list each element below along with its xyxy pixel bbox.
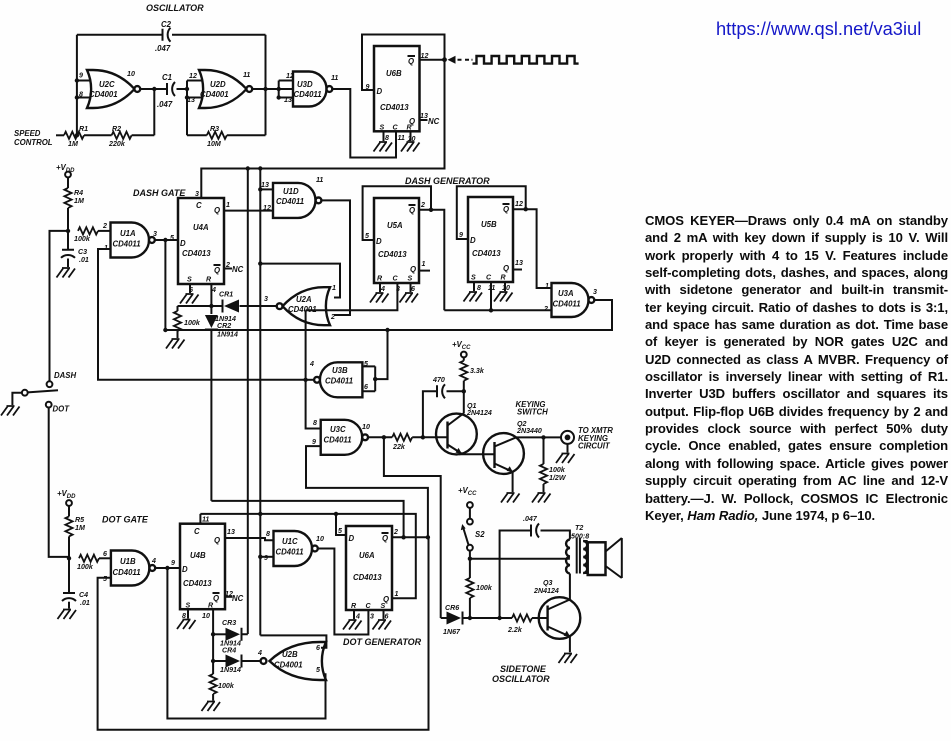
svg-text:U1C: U1C: [282, 537, 298, 546]
svg-text:U5B: U5B: [481, 220, 497, 229]
ground under 100k pulldown: [166, 339, 185, 349]
svg-text:C2: C2: [161, 20, 172, 29]
wire U5A Qbar row down to clock row: [419, 210, 444, 310]
wire U4A R down to CR1 row: [210, 284, 212, 306]
flip-flop U5B CD4013: [468, 197, 513, 282]
ground under U6B S: [374, 142, 393, 152]
switch common arm: [22, 390, 28, 396]
svg-text:3.3k: 3.3k: [470, 367, 485, 375]
svg-text:R2: R2: [112, 125, 121, 133]
svg-text:470: 470: [432, 376, 445, 384]
svg-text:12: 12: [515, 200, 523, 208]
wire U6B S and R stubs: [384, 131, 411, 141]
svg-text:CD4001: CD4001: [200, 90, 229, 99]
NAND gate U3C CD4011: [321, 420, 363, 455]
wire U2C input stubs: [77, 81, 93, 98]
wire U6A Qbar row: [392, 536, 428, 538]
svg-text:CD4011: CD4011: [276, 548, 304, 557]
diode CR4 1N914: [213, 660, 225, 662]
svg-text:OSCILLATOR: OSCILLATOR: [492, 674, 550, 684]
svg-text:13: 13: [227, 528, 235, 536]
svg-text:CD4011: CD4011: [325, 377, 353, 386]
capacitor .047 (sidetone): [531, 524, 539, 538]
svg-text:R1: R1: [79, 125, 88, 133]
node U3C output junction: [382, 435, 386, 439]
svg-text:U1D: U1D: [283, 187, 299, 196]
ground under U6A R: [343, 620, 362, 630]
svg-text:Q: Q: [408, 57, 414, 66]
svg-text:CD4011: CD4011: [324, 436, 352, 445]
wire U1B pin5 big loop (bottom wire 2): [98, 537, 429, 729]
svg-text:6: 6: [364, 383, 368, 391]
wire U4A Q to U1D pin12: [224, 210, 273, 212]
node U2C output junction: [152, 87, 156, 91]
wire U5B Q stub: [513, 269, 522, 271]
node bus B at line A: [258, 166, 262, 170]
svg-text:3: 3: [153, 230, 157, 238]
svg-text:NC: NC: [232, 265, 244, 274]
svg-text:C: C: [486, 274, 492, 282]
wire left vertical of oscillator: [76, 35, 78, 136]
wire U2A output to CR1: [240, 305, 277, 307]
svg-text:C1: C1: [162, 73, 172, 82]
wire U2C output row: [140, 88, 187, 90]
wire U2D output row: [252, 88, 293, 90]
svg-text:9: 9: [366, 83, 370, 91]
node CR3 junction: [211, 632, 215, 636]
svg-text:DOT GATE: DOT GATE: [102, 515, 149, 525]
wire CR2 column down to W3 bus: [210, 340, 212, 501]
node R3 riser junction: [263, 87, 267, 91]
node 470/3.3k junction: [462, 389, 466, 393]
svg-text:8: 8: [79, 91, 83, 99]
wire U3C output row: [368, 436, 392, 438]
wire U2A pin1 bracket from bus B: [260, 264, 340, 298]
resistor 3.3k: [463, 357, 465, 360]
svg-text:Q3: Q3: [543, 579, 553, 587]
svg-text:R4: R4: [74, 189, 83, 197]
svg-text:12: 12: [189, 72, 197, 80]
svg-text:C: C: [393, 124, 399, 132]
svg-text:100k: 100k: [184, 319, 201, 327]
svg-text:S: S: [186, 602, 191, 610]
svg-text:13: 13: [187, 96, 195, 104]
wire U1A pin1 to DASH line: [98, 249, 306, 380]
svg-text:U5A: U5A: [387, 221, 403, 230]
svg-text:R: R: [407, 124, 413, 132]
svg-text:13: 13: [515, 259, 523, 267]
svg-text:C: C: [196, 201, 202, 210]
ground under U6A S: [373, 620, 392, 630]
svg-text:Q: Q: [382, 534, 388, 543]
op-amp? no: NOR gate U2C CD4001: [87, 70, 135, 108]
svg-text:S: S: [380, 124, 385, 132]
ground under Q3 emitter: [559, 654, 578, 664]
node U2D input 12: [185, 87, 189, 91]
wire U1D pin13 from clock bus B: [260, 188, 273, 190]
svg-text:500:8: 500:8: [571, 533, 589, 541]
svg-text:R: R: [351, 602, 357, 610]
svg-text:CD4001: CD4001: [274, 661, 303, 670]
wire U3B column (dash-gen clock to U3C pin8): [306, 310, 321, 428]
svg-text:Q: Q: [214, 266, 220, 275]
URL text: [716, 18, 951, 40]
wire U1A output down to U3A line: [164, 240, 166, 330]
svg-text:C: C: [366, 602, 372, 610]
svg-text:DASH GATE: DASH GATE: [133, 188, 186, 198]
svg-text:22k: 22k: [392, 443, 406, 451]
node pin13 junction on bus B: [258, 187, 262, 191]
node y330/U1A-out junction: [163, 328, 167, 332]
wire U2B pin6 bracket to bus B: [260, 557, 326, 648]
node U3D input tie top: [277, 87, 281, 91]
svg-text:2: 2: [330, 313, 335, 321]
svg-text:3: 3: [593, 288, 597, 296]
svg-text:12: 12: [263, 204, 271, 212]
svg-text:1: 1: [422, 260, 426, 268]
description paragraph: [645, 212, 948, 524]
svg-text:CD4013: CD4013: [378, 250, 407, 259]
node U5B Qbar junction: [524, 207, 528, 211]
svg-text:U2A: U2A: [296, 295, 312, 304]
svg-text:CONTROL: CONTROL: [14, 138, 53, 147]
svg-text:CD4011: CD4011: [276, 197, 304, 206]
wire U3A output loop to left (y330 line): [165, 300, 612, 330]
flip-flop U6B CD4013: [374, 46, 420, 131]
svg-text:1N914: 1N914: [217, 331, 238, 339]
wire U5A C clock from U3B: [306, 283, 398, 310]
ground under Q2 emitter: [501, 493, 520, 503]
svg-text:Q: Q: [410, 265, 416, 274]
svg-text:6: 6: [103, 550, 107, 558]
node feedback junction: [497, 616, 501, 620]
svg-text:C: C: [393, 275, 399, 283]
NAND gate U3A CD4011: [552, 283, 589, 317]
svg-text:2: 2: [393, 528, 398, 536]
svg-text:U3B: U3B: [332, 366, 348, 375]
svg-text:2N4124: 2N4124: [533, 587, 559, 595]
ground under C4: [58, 610, 77, 620]
svg-text:Q: Q: [503, 264, 509, 273]
svg-text:1: 1: [395, 590, 399, 598]
NOR gate U2A CD4001 (mirrored): [283, 287, 331, 325]
wire CR6 node to 2.2k: [470, 617, 512, 619]
svg-text:2: 2: [102, 222, 107, 230]
wire Q2 collector row to terminal: [516, 436, 561, 438]
svg-text:1N67: 1N67: [443, 628, 461, 636]
node U3B output on DASH line: [303, 378, 307, 382]
svg-text:10: 10: [127, 70, 135, 78]
node U1A output junction: [163, 238, 167, 242]
svg-text:10: 10: [362, 423, 370, 431]
wire U2D input tie: [187, 81, 203, 136]
svg-text:.01: .01: [80, 599, 90, 607]
svg-text:R: R: [501, 274, 507, 282]
wire U3B output: [306, 379, 315, 381]
node CR4 junction: [211, 659, 215, 663]
svg-text:8: 8: [313, 419, 317, 427]
svg-text:13: 13: [284, 96, 292, 104]
svg-text:R3: R3: [210, 125, 219, 133]
NAND gate U3B CD4011 (mirrored): [320, 362, 362, 397]
svg-text:220k: 220k: [108, 140, 126, 148]
svg-text:CR6: CR6: [445, 604, 459, 612]
svg-text:T2: T2: [575, 524, 583, 532]
svg-text:DASH: DASH: [54, 371, 76, 380]
wire U4B C pin to dot-gate clock bus + U6A Q feedback: [200, 514, 415, 598]
node bus B on dot-gate bus: [258, 512, 262, 516]
svg-text:CD4011: CD4011: [113, 240, 141, 249]
wire U1A output to U4A D: [155, 239, 178, 241]
svg-text:1: 1: [332, 284, 336, 292]
flip-flop U4A CD4013: [178, 198, 224, 284]
ground under 100k 1/2W: [532, 493, 551, 503]
resistor 100k (U1B input): [79, 555, 99, 562]
svg-text:CD4001: CD4001: [89, 90, 118, 99]
node U5B C junction: [489, 308, 493, 312]
node W3 on Qbar row: [401, 535, 405, 539]
svg-text:1M: 1M: [74, 197, 85, 205]
svg-text:CR2: CR2: [217, 322, 231, 330]
svg-text:CR4: CR4: [222, 647, 236, 655]
svg-text:.01: .01: [79, 256, 89, 264]
svg-text:U4B: U4B: [190, 551, 206, 560]
svg-text:D: D: [377, 87, 383, 96]
svg-text:1M: 1M: [68, 140, 79, 148]
resistor R2 220k: [112, 132, 132, 139]
wire U4A S stub: [189, 284, 191, 293]
node U1B output junction: [165, 566, 169, 570]
svg-text:U3A: U3A: [558, 289, 574, 298]
flip-flop U6A CD4013: [346, 526, 392, 610]
node R4/C3/100k junction: [66, 229, 70, 233]
node W2 on Qbar row: [426, 535, 430, 539]
switch S2: [469, 508, 471, 519]
svg-text:2.2k: 2.2k: [507, 626, 523, 634]
wire U5A R stub + S stub: [380, 283, 411, 292]
capacitor C3 .01: [67, 231, 69, 250]
wire U3C pin9 staircase to U6A Qbar (W2): [306, 446, 428, 537]
svg-text:R: R: [206, 276, 212, 284]
wire U3D output to U6B clock: [332, 89, 396, 158]
svg-text:CD4013: CD4013: [353, 573, 382, 582]
capacitor C2: [163, 28, 171, 42]
wire U6A R stub + S stub: [354, 610, 384, 619]
svg-text:R5: R5: [75, 516, 85, 524]
node Q1 base junction: [421, 435, 425, 439]
wire clock bus B vertical: [259, 169, 261, 557]
svg-text:1M: 1M: [75, 524, 86, 532]
svg-text:6: 6: [411, 285, 415, 293]
flip-flop U5A CD4013: [374, 198, 419, 283]
node U6A D on bus: [334, 512, 338, 516]
node U1C pin9 junction: [258, 555, 262, 559]
NOR gate U2D CD4001: [199, 70, 247, 108]
node U2C input 9: [75, 78, 79, 82]
wire U1B out down + bottom wire 1 + U2B pin5 bracket: [167, 568, 325, 719]
wire U5B C down to clock row: [490, 282, 492, 310]
wire U4A Qbar NC stub: [224, 268, 232, 270]
svg-text:9: 9: [79, 72, 83, 80]
NAND gate U1A CD4011: [111, 223, 150, 258]
ground at switch common: [1, 406, 20, 416]
svg-text:9: 9: [312, 438, 316, 446]
svg-text:11: 11: [202, 516, 209, 524]
svg-text:3: 3: [195, 190, 199, 198]
svg-text:9: 9: [264, 554, 268, 562]
svg-text:+VDD: +VDD: [57, 489, 76, 500]
svg-text:U3C: U3C: [330, 425, 346, 434]
node R5/C4/100k junction: [67, 556, 71, 560]
clock waveform arrow: [448, 56, 456, 64]
svg-text:D: D: [349, 534, 355, 543]
svg-text:CD4013: CD4013: [380, 103, 409, 112]
svg-text:CIRCUIT: CIRCUIT: [578, 442, 611, 451]
svg-text:3: 3: [264, 295, 268, 303]
wire supply row to T2: [470, 558, 570, 560]
wire secondary bus vertical (CR3 feed): [247, 169, 249, 635]
wire DOT contact down to U1B node: [49, 408, 68, 557]
node CR1/U4A R junction: [209, 304, 213, 308]
svg-text:8: 8: [477, 284, 481, 292]
diode CR3 1N914: [213, 633, 225, 635]
svg-text:.047: .047: [523, 515, 538, 523]
svg-text:13: 13: [420, 112, 428, 120]
svg-text:1: 1: [545, 282, 549, 290]
svg-text:11: 11: [398, 134, 405, 142]
wire S2 to sidetone node: [469, 551, 471, 559]
terminal TO XMTR: [561, 431, 574, 444]
wire U6B Q out row: [420, 60, 445, 120]
svg-text:6: 6: [316, 644, 320, 652]
svg-text:C: C: [194, 527, 200, 536]
diode CR1 1N914: [224, 300, 239, 313]
svg-text:13: 13: [261, 181, 269, 189]
svg-text:D: D: [182, 565, 188, 574]
wire feedback riser to .047 cap: [500, 531, 531, 619]
ground under U5B S: [464, 292, 483, 302]
svg-text:U2D: U2D: [210, 80, 226, 89]
svg-text:NC: NC: [428, 117, 440, 126]
svg-text:10M: 10M: [207, 140, 222, 148]
node U2D input 13: [185, 95, 189, 99]
svg-text:100k: 100k: [74, 235, 91, 243]
wire U5B D feedback bracket: [457, 186, 526, 239]
svg-text:CD4011: CD4011: [113, 568, 141, 577]
svg-text:S: S: [408, 275, 413, 283]
wire U4B R down to CR3/CR4: [212, 609, 214, 661]
svg-text:100k: 100k: [218, 682, 235, 690]
wire U1D output to U2A pin2: [321, 200, 350, 315]
ground under U5B R: [494, 292, 513, 302]
flip-flop U4B CD4013: [180, 524, 225, 610]
resistor R5 1M: [68, 506, 70, 517]
svg-text:U1A: U1A: [120, 229, 136, 238]
node CR6/100k junction: [468, 616, 472, 620]
svg-text:11: 11: [316, 176, 323, 184]
svg-text:2N3440: 2N3440: [516, 427, 542, 435]
wire U5B Qbar row to U3A pin1: [513, 209, 552, 288]
ground under U5A S: [400, 293, 419, 303]
resistor R3 10M: [187, 134, 207, 136]
wire U1C pin9 from bus B: [260, 556, 273, 558]
svg-text:Q: Q: [213, 594, 219, 603]
wire Q1 emitter to Q2 base: [459, 453, 495, 455]
svg-text:DOT: DOT: [53, 405, 71, 414]
svg-text:5: 5: [338, 527, 343, 535]
svg-text:8: 8: [266, 530, 270, 538]
svg-text:11: 11: [331, 74, 338, 82]
svg-text:9: 9: [171, 559, 175, 567]
svg-text:CD4011: CD4011: [553, 300, 581, 309]
diode CR6 1N67: [441, 617, 447, 619]
svg-text:11: 11: [243, 71, 250, 79]
wire U5A D feedback bracket: [363, 186, 431, 240]
svg-text:100k: 100k: [476, 584, 493, 592]
svg-text:U6B: U6B: [386, 69, 402, 78]
svg-text:+VCC: +VCC: [452, 340, 471, 351]
svg-text:10: 10: [316, 535, 324, 543]
ground under U4B S: [177, 620, 196, 630]
NAND gate U3D CD4011: [293, 72, 327, 107]
wire riser from R2 to output: [153, 89, 155, 135]
svg-text:D: D: [180, 239, 186, 248]
svg-text:U1B: U1B: [120, 557, 136, 566]
wire C2 feedback top loop: [77, 34, 266, 36]
svg-text:S: S: [187, 276, 192, 284]
ground under U5A R: [370, 293, 389, 303]
svg-text:4: 4: [257, 649, 262, 657]
node U6B Q-bar junction: [442, 57, 447, 62]
svg-text:CR3: CR3: [222, 619, 236, 627]
wire U1C output to U6A clock C: [318, 549, 369, 635]
svg-text:R: R: [208, 602, 214, 610]
svg-text:1N914: 1N914: [220, 666, 241, 674]
wire U5B S stub + R stub: [474, 282, 505, 291]
ground under U6B R: [401, 142, 420, 152]
svg-text:U2B: U2B: [282, 650, 298, 659]
capacitor 470 feedback: [423, 391, 437, 437]
resistor 22k: [392, 434, 412, 441]
svg-text:5: 5: [103, 575, 108, 583]
ground under U4A S: [180, 294, 199, 304]
svg-text:CD4013: CD4013: [182, 249, 211, 258]
ground under dot-gate 100k: [202, 702, 221, 712]
resistor 100k pulldown (dash gate): [177, 306, 179, 311]
node U5A Qbar junction: [429, 208, 433, 212]
svg-text:4: 4: [309, 360, 314, 368]
wire U5A Q stub: [419, 270, 430, 272]
node U2C input 8: [75, 95, 79, 99]
svg-text:CD4013: CD4013: [183, 579, 212, 588]
svg-text:OSCILLATOR: OSCILLATOR: [146, 3, 204, 13]
svg-text:D: D: [470, 236, 476, 245]
resistor 100k (dot gate pulldown): [212, 661, 214, 674]
capacitor C4 .01: [68, 558, 70, 593]
svg-text:CR1: CR1: [219, 291, 233, 299]
svg-text:S: S: [381, 602, 386, 610]
svg-text:U4A: U4A: [193, 223, 209, 232]
wire U4B S stub: [187, 609, 189, 618]
wire U4B Qbar NC stub: [225, 596, 233, 598]
svg-text:NC: NC: [232, 594, 244, 603]
node U3B bracket: [373, 377, 377, 381]
node U2A bracket junction on bus B: [258, 261, 262, 265]
svg-text:S: S: [471, 274, 476, 282]
wire U3D input tie: [279, 81, 293, 98]
node CR3 bus at line A: [246, 166, 250, 170]
capacitor C1: [167, 82, 175, 96]
